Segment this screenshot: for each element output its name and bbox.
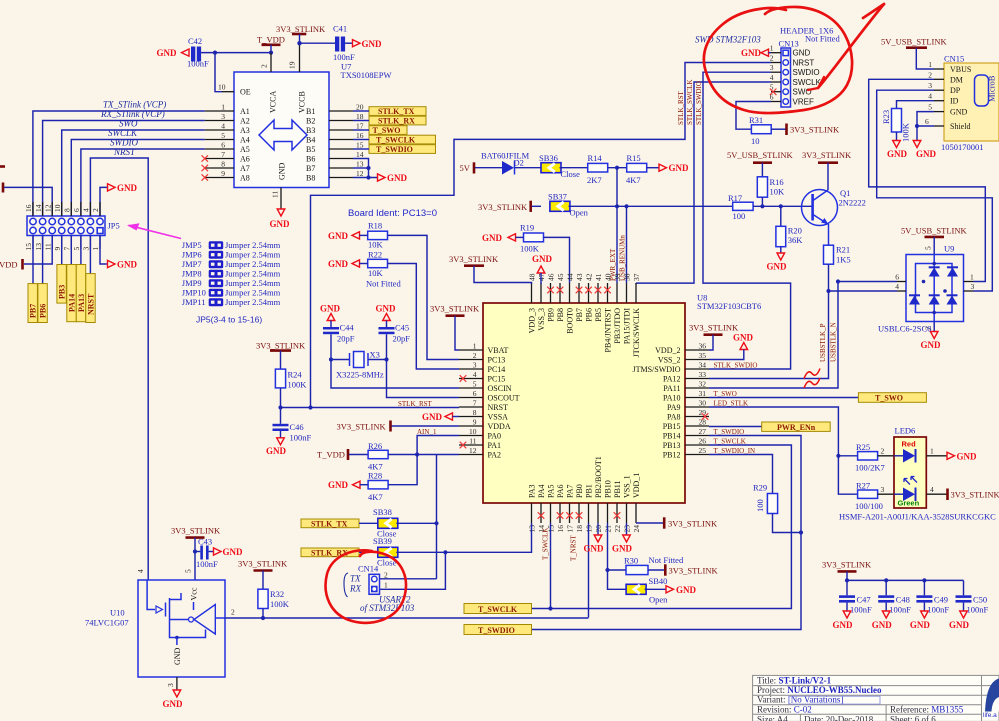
svg-text:JTMS/SWDIO: JTMS/SWDIO <box>632 365 680 374</box>
svg-text:100nF: 100nF <box>196 559 218 569</box>
svg-text:2K7: 2K7 <box>587 175 602 185</box>
wire SB39 to U8 PA3 <box>396 523 531 552</box>
svg-text:Jumper 2.54mm: Jumper 2.54mm <box>225 278 281 288</box>
svg-text:7: 7 <box>63 247 72 251</box>
svg-text:NRST: NRST <box>87 293 96 315</box>
U10 internal buffer triangle <box>189 617 194 622</box>
svg-text:12: 12 <box>356 169 364 178</box>
wire NRST JP5 pin 4 to U10 <box>90 158 148 580</box>
svg-text:3V3_STLINK: 3V3_STLINK <box>171 526 221 536</box>
no-connect X marks U8 <box>547 287 554 294</box>
svg-text:27: 27 <box>699 427 707 436</box>
svg-text:TXS0108EPW: TXS0108EPW <box>341 70 392 80</box>
svg-text:T_SWCLK: T_SWCLK <box>714 437 746 445</box>
capacitor C47 100nF <box>845 578 849 582</box>
svg-text:PB1: PB1 <box>585 484 594 498</box>
pin 2 VCCA stub <box>270 53 272 72</box>
red annotation circle around CN13 <box>704 7 852 113</box>
net label box T_SWDIO bottom <box>464 625 532 635</box>
red LED symbol <box>903 449 915 463</box>
svg-text:VSS_1: VSS_1 <box>623 475 632 498</box>
svg-text:JMP11: JMP11 <box>182 297 206 307</box>
svg-text:PA12: PA12 <box>663 375 681 384</box>
wire VBUS to 5V_USB_STLINK <box>916 48 934 69</box>
svg-text:Jumper 2.54mm: Jumper 2.54mm <box>225 250 281 260</box>
svg-text:2: 2 <box>473 351 477 360</box>
svg-text:1: 1 <box>970 273 974 282</box>
svg-text:R22: R22 <box>368 250 382 260</box>
svg-text:20pF: 20pF <box>393 334 411 344</box>
svg-text:33: 33 <box>699 370 707 379</box>
svg-text:5: 5 <box>72 247 81 251</box>
resistor R16 10K <box>757 177 767 197</box>
power 3V3_STLINK at R31 <box>785 124 788 136</box>
svg-text:SB38: SB38 <box>373 507 392 517</box>
wire C42 rail <box>201 52 271 54</box>
svg-text:DM: DM <box>950 75 963 84</box>
svg-text:CN15: CN15 <box>944 54 964 64</box>
svg-text:R20: R20 <box>788 226 802 236</box>
svg-text:11: 11 <box>43 243 52 250</box>
svg-text:C48: C48 <box>896 595 910 605</box>
svg-text:PA15/JTDI: PA15/JTDI <box>623 308 632 344</box>
svg-text:JP5: JP5 <box>108 221 120 231</box>
svg-text:3V3_STLINK: 3V3_STLINK <box>689 323 739 333</box>
wire R19 to BOOT0 <box>544 237 570 283</box>
svg-text:100/2K7: 100/2K7 <box>855 463 885 473</box>
svg-text:20pF: 20pF <box>337 334 355 344</box>
U7 pin 10 OE stub <box>222 91 234 93</box>
svg-text:SB40: SB40 <box>649 576 668 586</box>
svg-text:T_SWDIO_IN: T_SWDIO_IN <box>714 447 756 455</box>
svg-text:24: 24 <box>632 525 641 533</box>
svg-text:3: 3 <box>166 683 175 687</box>
net label PB3 <box>57 265 66 304</box>
solder bridge SB40 Open <box>626 584 646 594</box>
svg-text:VBUS: VBUS <box>950 65 971 74</box>
svg-text:A4: A4 <box>240 136 250 145</box>
svg-text:100nF: 100nF <box>290 433 312 443</box>
svg-text:3V3_STLINK: 3V3_STLINK <box>790 125 840 135</box>
svg-text:GND: GND <box>949 620 970 630</box>
svg-text:10K: 10K <box>368 268 384 278</box>
svg-text:Date: 20-Dec-2018: Date: 20-Dec-2018 <box>804 715 874 721</box>
svg-text:STLK_RST: STLK_RST <box>677 90 685 125</box>
power 3V3_STLINK at U8 VDD_1 <box>636 522 664 524</box>
svg-text:1: 1 <box>221 103 225 112</box>
svg-text:LED_STLK: LED_STLK <box>714 399 749 407</box>
svg-text:A5: A5 <box>240 145 250 154</box>
svg-text:2: 2 <box>770 54 774 63</box>
wire PB13 T_SWCLK to bottom label <box>532 445 792 609</box>
svg-text:GND: GND <box>733 333 754 343</box>
svg-text:PB9: PB9 <box>547 308 556 322</box>
svg-text:100nF: 100nF <box>187 59 209 69</box>
svg-text:4K7: 4K7 <box>626 175 641 185</box>
svg-text:Jumper 2.54mm: Jumper 2.54mm <box>225 297 281 307</box>
svg-text:17: 17 <box>356 122 364 131</box>
svg-text:16: 16 <box>356 131 364 140</box>
svg-text:12: 12 <box>43 204 52 212</box>
wire PB12 through R29 <box>709 455 773 494</box>
svg-text:STM32F103CBT6: STM32F103CBT6 <box>697 301 761 311</box>
svg-text:30: 30 <box>699 399 707 408</box>
svg-text:GND: GND <box>872 620 893 630</box>
svg-text:AIN_1: AIN_1 <box>417 428 437 436</box>
U8 top pins <box>531 283 533 303</box>
svg-text:T_NRST: T_NRST <box>570 535 578 561</box>
wire RX_STlink to JP5 pin 14 <box>43 121 205 217</box>
svg-text:R30: R30 <box>624 556 638 566</box>
net label PA13 <box>76 265 85 322</box>
svg-text:C49: C49 <box>934 595 948 605</box>
wire CN13 VREF to R31 <box>736 102 771 130</box>
svg-text:SWCLK: SWCLK <box>793 78 822 87</box>
svg-text:Board Ident: PC13=0: Board Ident: PC13=0 <box>348 208 437 219</box>
svg-text:T_SWO: T_SWO <box>373 126 401 135</box>
svg-text:36: 36 <box>699 342 707 351</box>
svg-text:19: 19 <box>288 61 297 69</box>
wire SWCLK to JP5 pin 8 <box>71 140 204 217</box>
svg-text:B6: B6 <box>306 155 315 164</box>
svg-text:PA7: PA7 <box>566 485 575 499</box>
svg-text:STLK_SWCLK: STLK_SWCLK <box>686 80 694 126</box>
svg-text:40: 40 <box>604 273 613 281</box>
svg-text:JMP6: JMP6 <box>182 250 202 260</box>
svg-text:GND: GND <box>117 260 138 270</box>
green LED symbol with arrows <box>903 488 915 502</box>
U10 internal input transistor <box>147 580 155 610</box>
U9 pin2 GND <box>933 322 935 332</box>
wire SB37 to R17 via PWR_EXT USB_RENUMn <box>569 205 733 207</box>
svg-text:1K5: 1K5 <box>836 255 851 265</box>
net PWR_EXT vertical <box>616 168 618 283</box>
pin 19 VCCB stub <box>299 43 301 72</box>
svg-text:GND: GND <box>278 162 287 180</box>
svg-text:A6: A6 <box>240 155 250 164</box>
svg-text:VBAT: VBAT <box>488 346 509 355</box>
svg-text:VREF: VREF <box>793 97 814 106</box>
svg-text:Jumper 2.54mm: Jumper 2.54mm <box>225 288 281 298</box>
svg-text:T_VDD: T_VDD <box>317 450 345 460</box>
svg-text:4: 4 <box>930 485 934 494</box>
svg-text:PA0: PA0 <box>488 432 502 441</box>
svg-text:R29: R29 <box>753 483 767 493</box>
power 3V3_STLINK at LED6 pin4 <box>926 493 946 495</box>
svg-text:5: 5 <box>184 569 193 573</box>
svg-text:D2: D2 <box>514 158 524 168</box>
svg-text:74LVC1G07: 74LVC1G07 <box>85 618 129 628</box>
svg-text:GND: GND <box>833 620 854 630</box>
wire PA2 down to SB38 <box>436 455 438 579</box>
wire R28 up to junction <box>388 455 417 485</box>
svg-text:2: 2 <box>928 70 932 79</box>
net label box T_SWCLK bottom <box>464 604 532 614</box>
svg-text:VDD_2: VDD_2 <box>655 346 680 355</box>
svg-text:GND: GND <box>612 544 633 554</box>
svg-text:JMP7: JMP7 <box>182 259 202 269</box>
svg-text:2N2222: 2N2222 <box>839 198 866 208</box>
svg-text:A1: A1 <box>240 107 250 116</box>
net label box STLK_RX <box>301 548 359 557</box>
svg-text:GND: GND <box>376 304 397 314</box>
svg-text:VDDA: VDDA <box>488 422 511 431</box>
svg-text:3V3_STLINK: 3V3_STLINK <box>430 304 480 314</box>
svg-text:25: 25 <box>699 446 707 455</box>
svg-text:35: 35 <box>699 351 707 360</box>
svg-text:GND: GND <box>223 547 244 557</box>
power stub T_VDD at left edge to JP5 pin 12 <box>2 183 5 193</box>
resistor R21 1K5 <box>824 245 834 264</box>
svg-text:100nF: 100nF <box>850 605 872 615</box>
svg-text:36K: 36K <box>788 235 804 245</box>
svg-text:ID: ID <box>950 97 959 106</box>
svg-text:2: 2 <box>881 447 885 456</box>
svg-text:R21: R21 <box>836 245 850 255</box>
svg-text:R18: R18 <box>368 221 382 231</box>
svg-text:VDD_1: VDD_1 <box>632 473 641 498</box>
wire JP5 pin 7 to PA14 <box>70 236 72 265</box>
svg-text:1: 1 <box>473 342 477 351</box>
wire R18 to U8 PC13 <box>388 235 460 359</box>
svg-text:3: 3 <box>473 361 477 370</box>
wire R21 to U9 pin4 <box>829 290 898 292</box>
svg-text:5V: 5V <box>460 163 471 173</box>
svg-text:T_SWCLK: T_SWCLK <box>542 528 550 560</box>
svg-text:1: 1 <box>384 581 388 590</box>
junction LED feed <box>836 454 840 458</box>
svg-text:PB13: PB13 <box>663 441 681 450</box>
svg-text:10: 10 <box>53 204 62 212</box>
net label box STLK_TX <box>301 519 359 528</box>
svg-text:GND: GND <box>793 49 811 58</box>
CN13 pin stubs <box>771 52 781 54</box>
svg-text:GND: GND <box>157 48 178 58</box>
svg-text:PA3: PA3 <box>528 485 537 499</box>
svg-text:4: 4 <box>136 569 145 573</box>
svg-text:3V3_STLINK: 3V3_STLINK <box>478 202 528 212</box>
svg-text:6: 6 <box>473 389 477 398</box>
svg-text:GND: GND <box>887 149 908 159</box>
svg-text:4: 4 <box>928 92 932 101</box>
svg-text:PA8: PA8 <box>667 413 681 422</box>
svg-text:6: 6 <box>925 117 929 126</box>
net label NRST <box>86 274 95 323</box>
svg-text:DP: DP <box>950 86 961 95</box>
svg-text:10K: 10K <box>368 240 384 250</box>
svg-text:R25: R25 <box>856 442 870 452</box>
svg-text:T_SWO: T_SWO <box>714 390 737 398</box>
connector JP5 <box>27 216 105 236</box>
svg-text:PA14: PA14 <box>68 294 77 312</box>
svg-text:MicroB: MicroB <box>987 75 997 102</box>
svg-text:SB37: SB37 <box>548 192 567 202</box>
wire R17 to Q1 base <box>753 205 811 207</box>
svg-text:26: 26 <box>699 437 707 446</box>
wire R22 to U8 PC14 <box>388 264 460 370</box>
wire TX_STlink to JP5 pin 16 <box>33 111 205 216</box>
svg-text:JP5(3-4 to 15-16): JP5(3-4 to 15-16) <box>196 315 262 325</box>
svg-text:TX: TX <box>350 574 361 584</box>
svg-text:PA6: PA6 <box>556 485 565 499</box>
svg-text:C47: C47 <box>857 595 871 605</box>
svg-text:T_SWDIO: T_SWDIO <box>478 626 515 635</box>
svg-text:R32: R32 <box>270 589 284 599</box>
svg-text:15: 15 <box>356 141 364 150</box>
net USBSTLK_P vertical to PA12 <box>709 291 829 379</box>
svg-text:BOOT0: BOOT0 <box>566 308 575 334</box>
svg-text:B7: B7 <box>306 164 315 173</box>
svg-text:STLK_RST: STLK_RST <box>398 400 433 408</box>
svg-text:R27: R27 <box>856 481 870 491</box>
svg-text:VCCA: VCCA <box>269 91 278 113</box>
svg-text:5: 5 <box>928 103 932 112</box>
svg-text:JMP9: JMP9 <box>182 278 202 288</box>
svg-text:PC13: PC13 <box>488 356 506 365</box>
svg-text:A3: A3 <box>240 126 250 135</box>
svg-text:PB15: PB15 <box>663 422 681 431</box>
svg-text:GND: GND <box>584 544 605 554</box>
svg-text:20: 20 <box>356 103 364 112</box>
svg-text:13: 13 <box>356 160 364 169</box>
svg-text:U10: U10 <box>110 608 125 618</box>
wire crystal to OSCOUT <box>387 360 460 398</box>
U7 bidirectional arrow <box>259 120 307 150</box>
svg-text:VDD_3: VDD_3 <box>528 308 537 333</box>
wire SWO to JP5 pin 10 <box>62 130 205 216</box>
U8 bottom pins <box>531 503 533 523</box>
svg-text:9: 9 <box>53 247 62 251</box>
svg-text:15: 15 <box>24 243 33 251</box>
GND at U8 pin20 <box>597 523 599 535</box>
no-connect X on A6 A7 A8 <box>202 155 209 161</box>
wire U9 pin6 to USBSTLK_N <box>838 281 897 283</box>
svg-text:100K: 100K <box>270 599 290 609</box>
svg-text:2: 2 <box>91 208 100 212</box>
svg-text:45: 45 <box>556 273 565 281</box>
U10 pin3 GND <box>176 677 178 690</box>
svg-text:STLK_TX: STLK_TX <box>311 519 348 528</box>
junction R14 R15 <box>615 166 619 170</box>
wire JP5 pin 1 to GND <box>100 236 108 265</box>
svg-text:GND: GND <box>669 163 690 173</box>
svg-text:R15: R15 <box>627 153 641 163</box>
svg-text:C46: C46 <box>290 422 304 432</box>
svg-text:100nF: 100nF <box>333 52 355 62</box>
svg-text:OE: OE <box>240 88 251 97</box>
svg-text:5V_USB_STLINK: 5V_USB_STLINK <box>881 37 948 47</box>
wire R26 junction to U8 PA2 <box>388 454 459 456</box>
svg-text:RX: RX <box>349 584 361 594</box>
svg-text:PB2/BOOT1: PB2/BOOT1 <box>594 456 603 498</box>
wire PA9 to LED6 <box>709 407 838 456</box>
wire crystal to OSCIN <box>331 360 459 389</box>
svg-text:STLK_SWDIO: STLK_SWDIO <box>714 361 758 369</box>
svg-text:4: 4 <box>221 122 225 131</box>
twisted pair symbols <box>804 369 820 379</box>
svg-text:46: 46 <box>547 273 556 281</box>
wire CN15 GND and Shield <box>917 112 934 141</box>
svg-text:GND: GND <box>163 699 184 709</box>
net label PWR_ENn box at PB15 <box>709 426 762 428</box>
svg-text:PA5: PA5 <box>547 485 556 499</box>
wire PB14 T_SWDIO to bottom label <box>532 436 802 630</box>
svg-text:B4: B4 <box>306 136 315 145</box>
svg-text:C50: C50 <box>973 595 987 605</box>
svg-text:GND: GND <box>328 231 349 241</box>
svg-text:100K: 100K <box>288 380 308 390</box>
svg-text:3V3_STLINK: 3V3_STLINK <box>256 341 306 351</box>
resistor R24 100K <box>275 369 285 388</box>
svg-text:STLK_RX: STLK_RX <box>378 117 415 126</box>
GND at U8 pin23 <box>626 523 628 535</box>
svg-text:Vcc: Vcc <box>190 587 199 600</box>
wire SB38 junction to CN14 pin2 <box>380 578 437 580</box>
svg-text:R26: R26 <box>368 441 382 451</box>
svg-text:GND: GND <box>916 149 937 159</box>
svg-text:B5: B5 <box>306 145 315 154</box>
svg-text:37: 37 <box>632 273 641 281</box>
svg-text:Not Fitted: Not Fitted <box>805 34 840 44</box>
resistor R20 36K <box>780 206 782 226</box>
svg-text:PB6: PB6 <box>39 304 48 318</box>
svg-text:T_SWO: T_SWO <box>875 394 903 403</box>
GND right of LED6 pin1 <box>926 455 947 457</box>
svg-text:10: 10 <box>218 83 226 92</box>
svg-text:Open: Open <box>570 208 589 218</box>
svg-text:GND: GND <box>270 219 291 229</box>
svg-text:11: 11 <box>469 437 476 446</box>
svg-text:CN14: CN14 <box>358 564 379 574</box>
svg-text:C43: C43 <box>198 537 212 547</box>
svg-text:R19: R19 <box>520 223 534 233</box>
svg-text:PC15: PC15 <box>488 375 506 384</box>
svg-text:1: 1 <box>91 247 100 251</box>
svg-text:1: 1 <box>928 60 932 69</box>
svg-text:32: 32 <box>699 380 707 389</box>
wire U8 PB10 to R30 <box>608 523 627 589</box>
svg-text:STLK_SWDIO: STLK_SWDIO <box>695 81 703 125</box>
svg-text:100nF: 100nF <box>889 605 911 615</box>
crystal X3 X3225-8MHz <box>331 359 350 361</box>
svg-text:R14: R14 <box>588 153 603 163</box>
svg-text:100/100: 100/100 <box>855 501 883 511</box>
svg-text:PA11: PA11 <box>663 384 680 393</box>
svg-text:A2: A2 <box>240 117 250 126</box>
svg-text:3V3_STLINK: 3V3_STLINK <box>449 254 499 264</box>
svg-text:PWR_ENn: PWR_ENn <box>777 423 816 432</box>
svg-text:GND: GND <box>676 585 697 595</box>
svg-text:10: 10 <box>469 427 477 436</box>
svg-text:16: 16 <box>24 204 33 212</box>
svg-text:39: 39 <box>613 273 622 281</box>
wire U8 PA5 T_SWCLK vertical <box>550 523 552 609</box>
svg-text:17: 17 <box>566 525 575 533</box>
svg-text:3: 3 <box>221 112 225 121</box>
svg-text:PA9: PA9 <box>667 403 681 412</box>
svg-text:VSS_3: VSS_3 <box>537 308 546 331</box>
svg-text:3V3_STLINK: 3V3_STLINK <box>337 422 387 432</box>
svg-text:100K: 100K <box>520 244 540 254</box>
svg-text:R31: R31 <box>749 115 763 125</box>
svg-text:1: 1 <box>930 447 934 456</box>
svg-text:T_SWDIO: T_SWDIO <box>714 428 745 436</box>
svg-text:GND: GND <box>957 451 978 461</box>
svg-text:Close: Close <box>561 169 581 179</box>
ST logo <box>985 679 999 712</box>
svg-text:Size: A4: Size: A4 <box>757 715 788 721</box>
title block <box>753 675 999 721</box>
